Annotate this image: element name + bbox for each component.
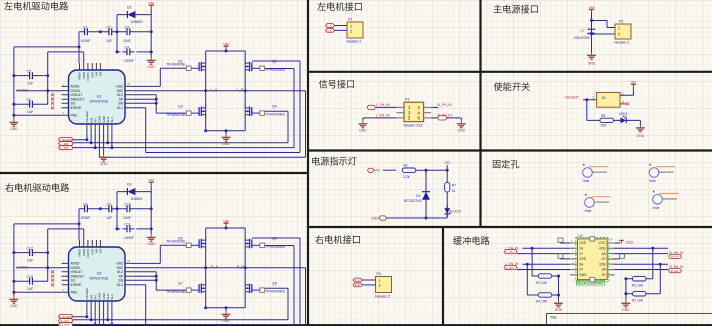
- motor driver section (shared graphics, used for left & right driver): [10, 1, 306, 166]
- capacitor C7 220UF/25V (polarized): [587, 29, 596, 34]
- port L_B: [326, 29, 335, 33]
- svg-text:U1: U1: [97, 95, 102, 99]
- svg-text:主电源接口: 主电源接口: [493, 4, 539, 15]
- MAIN POWER CONNECTOR section: [574, 5, 631, 66]
- svg-text:VM: VM: [223, 41, 229, 46]
- svg-text:LED1: LED1: [619, 112, 628, 116]
- svg-text:nSLEEP: nSLEEP: [565, 95, 579, 99]
- svg-text:Q1: Q1: [178, 59, 183, 63]
- svg-text:GND: GND: [222, 142, 230, 146]
- svg-text:信号接口: 信号接口: [319, 79, 356, 90]
- svg-text:100NF: 100NF: [124, 236, 134, 240]
- wire nSLEEP to S1: [583, 100, 600, 121]
- capacitor C6: [25, 101, 37, 108]
- port R_A: [353, 278, 362, 282]
- svg-text:R1: R1: [404, 163, 408, 167]
- wire R_PH_IN: [431, 106, 438, 108]
- svg-text:1Y: 1Y: [579, 252, 584, 256]
- svg-text:1UF: 1UF: [27, 81, 33, 85]
- svg-text:Hole: Hole: [653, 206, 660, 210]
- svg-text:SN: SN: [118, 102, 123, 106]
- svg-text:100NF: 100NF: [81, 216, 91, 220]
- transistor Q3: [190, 104, 206, 118]
- svg-text:Header 3X2: Header 3X2: [404, 123, 423, 127]
- svg-text:Q3: Q3: [178, 104, 183, 108]
- svg-text:1UF: 1UF: [27, 258, 33, 262]
- svg-text:VDD: VDD: [626, 241, 634, 245]
- wire R_EN_IN to GND: [431, 118, 461, 121]
- svg-text:GND: GND: [100, 162, 108, 166]
- svg-text:Header 2: Header 2: [615, 41, 630, 45]
- svg-text:S1: S1: [602, 96, 606, 100]
- port L_A: [326, 24, 335, 28]
- svg-text:10UF: 10UF: [123, 39, 131, 43]
- svg-text:GND: GND: [637, 134, 645, 138]
- svg-text:100NF: 100NF: [124, 59, 134, 63]
- svg-text:2OE: 2OE: [579, 257, 587, 261]
- svg-text:R_EN: R_EN: [671, 269, 679, 273]
- resistor R3 10K: [632, 277, 646, 281]
- svg-text:Q7: Q7: [178, 281, 183, 285]
- op-amp U1 DRV8701E chip body: [69, 70, 126, 124]
- ground: [587, 52, 596, 59]
- svg-text:右电机驱动电路: 右电机驱动电路: [5, 182, 69, 193]
- LEFT MOTOR CONNECTOR section: [326, 18, 364, 44]
- wires to D4 / R7 / bottom: [386, 165, 447, 218]
- svg-text:左电机驱动电路: 左电机驱动电路: [4, 1, 68, 12]
- svg-text:L_B: L_B: [327, 29, 332, 33]
- svg-text:LED2: LED2: [453, 209, 462, 213]
- connector pin stubs: [397, 107, 432, 118]
- svg-text:VM: VM: [589, 5, 595, 10]
- buffer left wiring: [517, 248, 570, 300]
- svg-text:Hole: Hole: [585, 209, 592, 213]
- wire VM to R1: [383, 169, 396, 171]
- svg-text:DVCC: DVCC: [86, 71, 90, 80]
- capacitor C5: [25, 72, 37, 79]
- ground left: [359, 120, 368, 127]
- svg-text:C11: C11: [125, 223, 131, 227]
- right motor driver section graphics (copy of left): [10, 178, 306, 326]
- svg-text:GND: GND: [10, 127, 18, 131]
- svg-text:DRV8701E: DRV8701E: [90, 277, 109, 281]
- svg-text:1: 1: [350, 24, 352, 28]
- buffer right wiring: [615, 243, 669, 300]
- power VD: [631, 84, 636, 87]
- svg-text:Title: Title: [550, 316, 557, 320]
- svg-text:VD: VD: [631, 80, 637, 85]
- svg-text:GND: GND: [371, 217, 379, 221]
- svg-text:固定孔: 固定孔: [492, 159, 520, 170]
- svg-text:D4: D4: [416, 194, 420, 198]
- svg-text:R1 10K: R1 10K: [632, 299, 644, 303]
- svg-text:U2: U2: [578, 234, 583, 238]
- ENABLE SWITCH section: [565, 80, 645, 138]
- svg-text:3A: 3A: [602, 268, 607, 272]
- ground: [147, 57, 156, 64]
- svg-text:L_EN_IN: L_EN_IN: [376, 113, 390, 117]
- capacitor C3: [122, 28, 134, 35]
- svg-text:VM: VM: [99, 71, 103, 76]
- svg-text:R2 10K: R2 10K: [536, 281, 548, 285]
- svg-text:GND: GND: [579, 273, 587, 277]
- svg-text:R_PH: R_PH: [671, 255, 679, 259]
- svg-text:GND: GND: [147, 65, 155, 69]
- wire L_PH_IN: [376, 106, 397, 108]
- svg-text:nFAULT: nFAULT: [71, 93, 83, 97]
- svg-text:R4 10K: R4 10K: [536, 300, 548, 304]
- svg-text:1UF: 1UF: [106, 216, 112, 220]
- svg-text:100NF: 100NF: [81, 39, 91, 43]
- svg-text:Q8: Q8: [272, 281, 277, 285]
- svg-text:P4: P4: [377, 272, 381, 276]
- svg-text:GND: GND: [588, 62, 596, 66]
- FET gate terminal squares: [186, 66, 191, 70]
- port right: [438, 116, 448, 120]
- mounting hole: [649, 164, 675, 177]
- capacitor C4: [122, 49, 134, 56]
- svg-text:2: 2: [350, 29, 352, 33]
- svg-text:VM: VM: [148, 1, 154, 6]
- ground: [10, 119, 19, 126]
- zener D4 BZT52C3V3: [422, 188, 430, 204]
- port R_B: [353, 283, 362, 287]
- svg-text:C10: C10: [125, 203, 131, 207]
- svg-text:2: 2: [618, 32, 620, 36]
- resistor R4 10K: [538, 293, 552, 297]
- svg-text:C13: C13: [27, 275, 33, 279]
- svg-text:R_B: R_B: [237, 265, 245, 269]
- svg-text:10UF: 10UF: [123, 216, 131, 220]
- ground left: [554, 300, 563, 307]
- svg-text:2A: 2A: [579, 262, 584, 266]
- switch S1: [597, 93, 620, 108]
- LED1: [614, 119, 619, 121]
- section titles: [4, 1, 539, 246]
- capacitor C1: [80, 28, 92, 35]
- svg-text:2: 2: [379, 284, 381, 288]
- power VM (H-bridge): [223, 46, 228, 49]
- svg-text:R3 10K: R3 10K: [632, 284, 644, 288]
- transistor Q2: [245, 60, 261, 74]
- svg-text:14: 14: [610, 238, 614, 242]
- svg-text:VD: VD: [445, 161, 451, 165]
- svg-text:BZT52C3V3: BZT52C3V3: [404, 199, 422, 203]
- svg-text:GND: GND: [359, 128, 367, 132]
- resistor R1 2.2k: [402, 168, 416, 172]
- svg-text:C6: C6: [27, 98, 32, 102]
- chip edge test squares: [590, 237, 595, 241]
- svg-text:U3: U3: [97, 272, 102, 276]
- svg-text:2Y: 2Y: [579, 268, 584, 272]
- FET part numbers: [166, 62, 285, 117]
- svg-text:DRV8701E: DRV8701E: [90, 100, 109, 104]
- connector P1 Header 2: [347, 22, 363, 38]
- ground: [636, 125, 645, 132]
- chip pin stubs: [62, 63, 133, 131]
- svg-text:1UF: 1UF: [27, 287, 33, 291]
- svg-text:Q6: Q6: [272, 236, 277, 240]
- svg-text:3OE: 3OE: [599, 262, 607, 266]
- svg-text:TPH1R403NL: TPH1R403NL: [266, 113, 286, 117]
- resistor R7 1k (vertical): [445, 182, 450, 192]
- transistor Q4: [245, 104, 261, 118]
- mounting hole: [585, 194, 611, 207]
- svg-text:PAD: PAD: [71, 113, 78, 117]
- svg-text:R6: R6: [601, 114, 605, 118]
- power VM (top right of caps): [149, 5, 154, 8]
- wire junction dots: [12, 30, 246, 149]
- svg-text:R_A: R_A: [211, 265, 219, 269]
- svg-text:L_A: L_A: [327, 24, 332, 28]
- svg-text:右电机接口: 右电机接口: [315, 234, 361, 245]
- svg-text:1: 1: [379, 279, 381, 283]
- svg-text:C5: C5: [27, 70, 32, 74]
- svg-text:Header 2: Header 2: [375, 295, 390, 299]
- wire VM to C7 and P2: [592, 13, 616, 52]
- svg-text:SL1: SL1: [110, 117, 114, 123]
- svg-text:电源指示灯: 电源指示灯: [311, 156, 357, 167]
- title block: [547, 313, 712, 326]
- left driver section text (U1, C1-C6, D2, Q1-Q4, L_A/L_B): [27, 6, 277, 150]
- svg-text:VCC: VCC: [599, 241, 607, 245]
- svg-text:SO: SO: [71, 102, 76, 106]
- diode D2 1N5819: [123, 11, 139, 18]
- transistor Q1: [190, 60, 206, 74]
- svg-text:1k: 1k: [452, 189, 456, 193]
- svg-text:TPH1R403NL: TPH1R403NL: [166, 62, 186, 66]
- svg-text:P1: P1: [348, 18, 352, 22]
- wire L_EN_IN to GND: [363, 118, 397, 121]
- connector P3 Header 3X2: [404, 102, 424, 121]
- svg-text:GND: GND: [458, 128, 466, 132]
- svg-text:D2: D2: [127, 6, 132, 10]
- svg-text:10K: 10K: [601, 123, 608, 127]
- svg-text:C1: C1: [83, 26, 88, 30]
- right driver section text (U3, C8-C13, D3, Q5-Q8, R_A/R_B): [27, 183, 277, 326]
- svg-text:L_PH_IN: L_PH_IN: [376, 103, 390, 107]
- resistor R1 10K: [632, 292, 646, 296]
- ground right: [457, 120, 466, 127]
- svg-text:C7: C7: [580, 29, 584, 33]
- svg-text:TPH1R403NL: TPH1R403NL: [266, 68, 286, 72]
- chip pin names: [71, 71, 124, 122]
- svg-text:1UF: 1UF: [27, 110, 33, 114]
- svg-text:4A: 4A: [602, 252, 607, 256]
- ports nSLEEP / EN / PH: [59, 138, 74, 150]
- capacitor C2: [104, 28, 116, 35]
- svg-text:2.2k: 2.2k: [403, 175, 410, 179]
- svg-text:1A: 1A: [579, 247, 584, 251]
- svg-text:P2: P2: [619, 20, 623, 24]
- MOUNTING HOLES section: [583, 164, 679, 213]
- svg-text:R_A: R_A: [355, 278, 360, 282]
- BUFFER CIRCUIT section: [504, 234, 684, 312]
- port left: [367, 105, 376, 109]
- svg-text:DVDD: DVDD: [17, 87, 28, 92]
- resistor R2 10K: [538, 274, 552, 278]
- svg-text:L_PH: L_PH: [61, 146, 69, 150]
- svg-text:Q2: Q2: [272, 59, 277, 63]
- RIGHT MOTOR CONNECTOR section: [353, 272, 392, 299]
- wire GND left rail: [14, 9, 306, 158]
- svg-text:VM: VM: [374, 169, 380, 173]
- svg-text:左电机接口: 左电机接口: [317, 1, 363, 12]
- wire S1 to VD: [620, 88, 633, 96]
- SIGNAL CONNECTOR section: [359, 98, 466, 133]
- svg-text:L_EN: L_EN: [506, 266, 514, 270]
- connector P4 Header 2: [376, 277, 392, 293]
- POWER INDICATOR section: [368, 161, 462, 220]
- svg-text:220UF/25V: 220UF/25V: [574, 36, 591, 40]
- svg-text:4OE: 4OE: [599, 247, 607, 251]
- svg-text:1N5819: 1N5819: [131, 20, 143, 24]
- resistor R6 10K: [600, 118, 614, 122]
- svg-text:Hole: Hole: [583, 179, 590, 183]
- svg-text:C2: C2: [107, 26, 112, 30]
- svg-text:缓冲电路: 缓冲电路: [453, 235, 490, 246]
- svg-text:D3: D3: [127, 183, 132, 187]
- no-connect pin 3: [620, 103, 626, 105]
- svg-text:C12: C12: [27, 247, 33, 251]
- connector P2 Header 2: [615, 24, 631, 39]
- power VM: [589, 10, 594, 13]
- svg-text:R_B: R_B: [355, 283, 360, 287]
- mounting hole: [653, 191, 679, 204]
- svg-text:C3: C3: [125, 26, 130, 30]
- ground: [99, 154, 108, 161]
- svg-text:C9: C9: [107, 203, 112, 207]
- ground right: [622, 300, 631, 307]
- svg-text:Header 2: Header 2: [347, 40, 362, 44]
- OE pull squares: [558, 238, 563, 242]
- LED2 (pointing down): [444, 205, 452, 217]
- svg-text:TPH1R403NL: TPH1R403NL: [166, 113, 186, 117]
- svg-text:1OE: 1OE: [579, 241, 587, 245]
- svg-text:IDRIVE: IDRIVE: [71, 106, 83, 110]
- svg-text:L_B: L_B: [237, 88, 244, 92]
- svg-text:Q4: Q4: [272, 104, 277, 108]
- svg-text:1UF: 1UF: [106, 39, 112, 43]
- svg-text:4Y: 4Y: [602, 257, 607, 261]
- svg-text:R_PH_IN: R_PH_IN: [438, 103, 453, 107]
- svg-text:Q5: Q5: [178, 236, 183, 240]
- svg-text:Hole: Hole: [649, 179, 656, 183]
- svg-text:GL1: GL1: [117, 106, 123, 110]
- mounting hole: [583, 164, 609, 177]
- IC U2 SN74HC125PWR: [576, 237, 609, 281]
- svg-text:R7: R7: [452, 183, 456, 187]
- wire LED1 to GND: [628, 120, 640, 124]
- svg-text:GND: GND: [622, 308, 630, 312]
- svg-text:1: 1: [618, 27, 620, 31]
- svg-text:C8: C8: [83, 203, 88, 207]
- svg-text:3Y: 3Y: [602, 273, 607, 277]
- svg-text:GL2: GL2: [117, 93, 123, 97]
- svg-text:24: 24: [127, 82, 131, 86]
- ground: [222, 134, 231, 141]
- svg-text:L_A: L_A: [211, 88, 218, 92]
- svg-text:L_PH: L_PH: [506, 250, 514, 254]
- no-ERC crosses on unused pins: [51, 93, 54, 96]
- svg-text:GND: GND: [555, 308, 563, 312]
- svg-text:P3: P3: [405, 98, 409, 102]
- svg-text:C4: C4: [125, 46, 130, 50]
- svg-text:使能开关: 使能开关: [494, 81, 531, 92]
